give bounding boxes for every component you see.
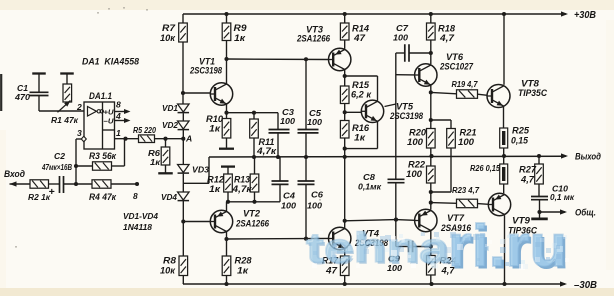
svg-text:R13: R13: [234, 175, 250, 185]
svg-text:100: 100: [281, 201, 296, 211]
svg-text:2SC3198: 2SC3198: [389, 111, 423, 121]
svg-text:100: 100: [407, 137, 423, 147]
svg-text:R15: R15: [352, 80, 369, 90]
svg-text:–30В: –30В: [574, 280, 597, 291]
svg-text:ri.ru: ri.ru: [448, 213, 567, 279]
svg-text:1к: 1к: [234, 33, 246, 43]
svg-text:R20: R20: [409, 128, 426, 138]
svg-text:100: 100: [406, 169, 422, 179]
svg-text:R27: R27: [519, 165, 537, 175]
svg-text:2SA1266: 2SA1266: [296, 34, 330, 44]
svg-text:2SC3198: 2SC3198: [189, 66, 222, 76]
svg-text:1N4118: 1N4118: [123, 222, 152, 232]
svg-text:DA1 KIA4558: DA1 KIA4558: [82, 57, 140, 67]
svg-text:100: 100: [307, 201, 322, 211]
svg-text:47: 47: [353, 33, 366, 43]
svg-text:3: 3: [77, 128, 82, 138]
svg-text:1к: 1к: [237, 266, 249, 276]
svg-text:100: 100: [280, 116, 295, 126]
svg-text:R2 1к: R2 1к: [28, 192, 51, 202]
svg-text:R23 4,7: R23 4,7: [452, 185, 480, 195]
svg-text:10к: 10к: [160, 266, 176, 276]
svg-text:R26 0,15: R26 0,15: [470, 163, 500, 173]
svg-text:2SA1266: 2SA1266: [235, 219, 269, 229]
svg-text:0,1мк: 0,1мк: [358, 182, 382, 192]
svg-text:R22: R22: [408, 160, 425, 170]
svg-text:1к: 1к: [150, 157, 161, 167]
svg-text:4,7: 4,7: [520, 175, 535, 185]
svg-text:Вход: Вход: [4, 169, 26, 179]
svg-text:470: 470: [14, 92, 30, 102]
svg-text:1к: 1к: [354, 133, 366, 143]
svg-text:VT6: VT6: [446, 52, 463, 62]
svg-text:1к: 1к: [209, 184, 221, 194]
svg-text:R4 47к: R4 47к: [89, 192, 117, 202]
svg-text:VD2: VD2: [162, 120, 178, 130]
svg-text:R12: R12: [207, 175, 224, 185]
svg-text:Выход: Выход: [575, 152, 601, 163]
svg-text:R9: R9: [234, 23, 247, 33]
svg-text:C4: C4: [283, 191, 295, 201]
svg-text:R14: R14: [352, 24, 369, 34]
svg-text:2: 2: [76, 102, 82, 112]
svg-text:R8: R8: [163, 256, 176, 266]
svg-text:0,15: 0,15: [511, 136, 528, 146]
svg-text:4: 4: [115, 111, 121, 121]
svg-text:4,7к: 4,7к: [231, 184, 252, 194]
svg-text:VD3: VD3: [192, 165, 209, 175]
svg-text:R28: R28: [235, 256, 252, 266]
svg-text:100: 100: [307, 117, 322, 127]
svg-text:R7: R7: [162, 23, 176, 33]
svg-text:6,2 к: 6,2 к: [351, 90, 372, 100]
svg-text:1: 1: [116, 128, 121, 138]
svg-text:+: +: [49, 186, 55, 198]
svg-text:100: 100: [458, 137, 474, 147]
svg-text:R1 47к: R1 47к: [51, 115, 79, 125]
svg-text:+30В: +30В: [574, 10, 596, 21]
svg-text:VT5: VT5: [396, 102, 413, 112]
svg-text:VD1-VD4: VD1-VD4: [123, 211, 158, 221]
svg-text:10к: 10к: [160, 33, 176, 43]
svg-text:C6: C6: [311, 190, 323, 200]
svg-text:1к: 1к: [209, 124, 221, 134]
svg-text:C2: C2: [54, 151, 65, 161]
svg-text:R16: R16: [352, 123, 369, 133]
svg-text:R19 4,7: R19 4,7: [452, 79, 479, 89]
svg-text:2SC1027: 2SC1027: [439, 62, 474, 72]
svg-text:R10: R10: [206, 114, 223, 124]
svg-text:R5 220: R5 220: [133, 125, 156, 135]
svg-text:VD1: VD1: [162, 103, 178, 113]
svg-text:A: A: [185, 134, 192, 144]
svg-text:+U: +U: [104, 108, 115, 117]
svg-text:R21: R21: [460, 128, 477, 138]
svg-text:R18: R18: [438, 24, 455, 34]
svg-text:VT2: VT2: [243, 209, 260, 219]
svg-text:8: 8: [116, 100, 121, 110]
svg-text:47мк×16В: 47мк×16В: [41, 163, 72, 172]
svg-text:DA1.1: DA1.1: [89, 91, 112, 101]
svg-text:R25: R25: [512, 126, 529, 136]
svg-text:Общ.: Общ.: [575, 208, 596, 219]
svg-text:0,1 мк: 0,1 мк: [550, 192, 575, 202]
svg-text:4,7: 4,7: [439, 33, 455, 43]
svg-text:100: 100: [393, 33, 408, 43]
svg-text:VT8: VT8: [521, 79, 539, 89]
svg-text:R3 56к: R3 56к: [89, 151, 117, 161]
svg-text:tehna: tehna: [306, 224, 450, 271]
svg-text:TIP35C: TIP35C: [518, 88, 547, 98]
svg-text:4,7к: 4,7к: [256, 146, 277, 156]
svg-text:C8: C8: [363, 172, 375, 182]
svg-text:VD4: VD4: [161, 192, 177, 202]
svg-text:C7: C7: [396, 23, 409, 33]
svg-text:8: 8: [133, 191, 138, 201]
svg-text:–U: –U: [104, 117, 115, 126]
